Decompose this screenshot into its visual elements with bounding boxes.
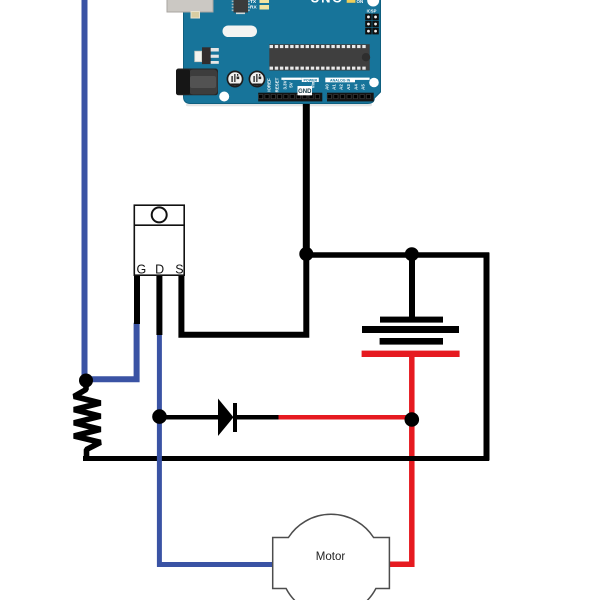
svg-text:A5: A5 <box>360 84 365 90</box>
svg-text:RX: RX <box>250 5 257 11</box>
svg-text:A0: A0 <box>325 84 330 90</box>
svg-text:IOREF: IOREF <box>267 78 272 92</box>
svg-text:Motor: Motor <box>316 551 346 563</box>
svg-text:A4: A4 <box>353 84 358 90</box>
svg-text:UNO: UNO <box>310 0 343 6</box>
svg-text:3.3V: 3.3V <box>282 80 287 89</box>
svg-text:G: G <box>137 263 147 277</box>
svg-text:RESET: RESET <box>274 77 279 92</box>
svg-text:ON: ON <box>357 0 364 4</box>
svg-text:ICSP: ICSP <box>367 8 377 13</box>
svg-text:A3: A3 <box>346 84 351 90</box>
svg-text:5V: 5V <box>289 82 294 87</box>
svg-text:A2: A2 <box>339 84 344 90</box>
svg-text:ANALOG IN: ANALOG IN <box>330 79 351 83</box>
svg-text:D: D <box>155 263 164 277</box>
svg-text:GND: GND <box>298 89 312 95</box>
svg-text:A1: A1 <box>332 84 337 90</box>
svg-text:S: S <box>175 263 183 277</box>
svg-text:TX: TX <box>250 0 257 5</box>
